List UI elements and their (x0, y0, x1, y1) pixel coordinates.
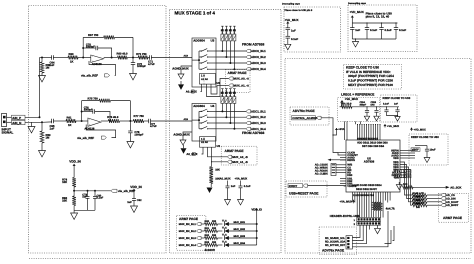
resistor R112 (412, 200, 427, 203)
wire (40, 57, 52, 59)
svg-text:A0_MUX: A0_MUX (186, 153, 197, 156)
wire bundle to IC top (357, 124, 359, 136)
wire cap bus bottom (352, 38, 396, 40)
svg-text:0.1uF: 0.1uF (385, 29, 392, 32)
wire J6 out 1 (352, 230, 360, 238)
svg-text:+3VA: +3VA (338, 128, 344, 131)
wire mux common (192, 59, 199, 61)
wire (287, 38, 289, 44)
ground (364, 116, 369, 121)
svg-text:R91: R91 (205, 227, 210, 230)
svg-text:R67 750: R67 750 (88, 34, 99, 37)
ground (41, 73, 43, 76)
ground (131, 206, 138, 212)
svg-text:4039383736353433: 4039383736353433 (357, 137, 379, 140)
svg-text:ADC0_BL4: ADC0_BL4 (251, 67, 266, 71)
wire (338, 152, 340, 154)
diode D6 (224, 229, 229, 233)
svg-text:SIGNAL: SIGNAL (2, 130, 14, 134)
resistor R78 (72, 178, 76, 188)
resistor network RN1 (331, 164, 336, 176)
resistor pack values (221, 30, 223, 32)
via mark (221, 25, 223, 27)
wire feedback right (129, 101, 131, 121)
node (111, 57, 113, 59)
wire (341, 103, 343, 107)
capacitor CB0 (351, 23, 353, 28)
wire decoder out B (207, 79, 229, 97)
svg-text:U4: U4 (211, 104, 215, 108)
wire (427, 197, 441, 199)
wire (382, 199, 384, 218)
wire mux out (216, 122, 246, 124)
resistor RP4 0 (373, 199, 375, 203)
resistor pack R1 (225, 97, 228, 104)
net label via_a/b_REF out (111, 189, 117, 192)
svg-text:ADC1_BL3: ADC1_BL3 (251, 121, 266, 125)
capacitor C78 (129, 121, 131, 131)
node (39, 116, 41, 118)
mux address decoder (200, 137, 216, 148)
wire (120, 120, 134, 122)
svg-text:TLA: TLA (222, 234, 227, 237)
resistor RP4 2 (377, 199, 379, 203)
svg-text:KEEP CLOSE TO U30: KEEP CLOSE TO U30 (411, 136, 439, 139)
ground (130, 74, 137, 80)
ADV76x page box bottom (319, 227, 357, 254)
svg-text:A1N: A1N (184, 55, 189, 58)
resistor R80 (72, 196, 76, 206)
wire (25, 58, 40, 118)
wire riser 4 (233, 41, 235, 69)
svg-text:MUX_A1_-B: MUX_A1_-B (232, 161, 247, 164)
ground (178, 74, 184, 79)
svg-text:ADC1_BL2: ADC1_BL2 (251, 115, 266, 119)
svg-text:AD7938: AD7938 (364, 160, 375, 164)
mux switch 4 (199, 128, 201, 130)
capacitor C70 (83, 47, 96, 49)
wire mux out (216, 68, 246, 70)
wire mux out (216, 50, 246, 52)
net label SPI2 (441, 200, 445, 203)
svg-text:R90: R90 (205, 220, 210, 223)
svg-text:0.1uF: 0.1uF (399, 29, 406, 32)
svg-text:pins 5, 13, 15, 40: pins 5, 13, 15, 40 (366, 15, 390, 19)
ferrite bead FB1 (12, 115, 26, 119)
wire diode bus (256, 212, 258, 246)
svg-text:MUX_A1_-A: MUX_A1_-A (234, 85, 249, 88)
wire mux out (216, 128, 246, 130)
svg-text:FROM AD7938: FROM AD7938 (242, 42, 264, 46)
net label ADC1_BL1 (246, 110, 251, 113)
svg-text:R61: R61 (67, 117, 72, 120)
IC U30 body (346, 140, 400, 192)
capacitor C256 (386, 106, 387, 107)
ground (71, 213, 78, 219)
resistor R90 (205, 223, 218, 226)
keep close box 3 (409, 134, 448, 165)
ground (238, 200, 244, 206)
svg-text:0.1uF: 0.1uF (383, 103, 390, 106)
ferrite bead FB2 (12, 120, 26, 124)
svg-text:A0_MUX: A0_MUX (220, 177, 231, 180)
wire output (104, 57, 118, 59)
wire cap bus top (351, 20, 353, 24)
wire (201, 223, 204, 225)
IC bottom pin stubs (352, 192, 354, 199)
IC top pin stubs (357, 137, 359, 141)
wire arrow (328, 159, 332, 161)
svg-text:DNI: DNI (416, 206, 420, 209)
capacitor C260 (426, 146, 428, 150)
svg-text:+VA_MUX: +VA_MUX (285, 18, 299, 22)
wire (7, 121, 12, 123)
wire feedback left (82, 37, 84, 57)
svg-text:3300pF: 3300pF (86, 46, 95, 49)
ground (28, 127, 35, 133)
mux address decoder (200, 74, 216, 85)
svg-text:1uF: 1uF (231, 185, 236, 188)
net label ICRNT (288, 184, 303, 188)
wire mux out (216, 62, 246, 64)
net label VREF (411, 148, 420, 152)
note box KEEP CLOSE TO U30 (344, 65, 402, 90)
ARM7 page box bottom (177, 216, 206, 251)
svg-text:ADG604: ADG604 (193, 104, 205, 108)
ground (127, 142, 134, 148)
wire (218, 230, 223, 232)
input connector J1 (2, 114, 7, 127)
wire noninverting input (86, 125, 115, 138)
svg-text:ARM7 PAGE: ARM7 PAGE (228, 71, 248, 75)
svg-text:R76 49.9: R76 49.9 (107, 116, 119, 119)
svg-text:1000pF: 1000pF (134, 134, 143, 137)
svg-text:1uF: 1uF (355, 29, 360, 32)
svg-text:VREF: VREF (412, 149, 419, 152)
svg-text:100: 100 (403, 183, 408, 186)
resistor R113 (412, 204, 427, 207)
capacitor CB2 (381, 22, 382, 23)
mux stage section boundary box (170, 9, 282, 253)
svg-text:1uF: 1uF (394, 103, 399, 106)
svg-text:10uF: 10uF (430, 149, 436, 152)
svg-text:MUX STAGE 1 of 4: MUX STAGE 1 of 4 (175, 11, 216, 16)
svg-text:MUX_EN_BL3: MUX_EN_BL3 (179, 237, 197, 240)
svg-text:AIN_N: AIN_N (12, 121, 21, 125)
capacitor C90 (227, 181, 229, 187)
svg-text:0.1uF: 0.1uF (97, 197, 104, 200)
svg-text:0.1uF: 0.1uF (244, 185, 251, 188)
resistor R93 (205, 244, 218, 247)
svg-text:MUX_EN1: MUX_EN1 (234, 221, 246, 224)
wire decoder2 out B (208, 147, 228, 157)
wire mux out (216, 110, 246, 112)
capacitor C85 (286, 27, 291, 29)
USB reset page box (286, 181, 327, 197)
wire (352, 106, 399, 108)
svg-text:1112131415161718: 1112131415161718 (353, 194, 374, 197)
decoupling caps box B (348, 5, 417, 52)
resistor R67 (104, 36, 115, 40)
node (82, 47, 84, 49)
power +VD_MUX mid (411, 128, 413, 131)
resistor R58 (40, 62, 44, 73)
wire (183, 132, 192, 140)
wire output (101, 120, 108, 122)
wire feedback top (82, 100, 99, 102)
net label MUX_A0_B (227, 155, 231, 158)
svg-text:R93: R93 (205, 241, 210, 244)
svg-text:MUX_A0_-A: MUX_A0_-A (234, 78, 249, 81)
svg-text:ARM7 PAGE: ARM7 PAGE (225, 149, 245, 153)
wire (201, 230, 204, 232)
svg-text:AGND_MUX: AGND_MUX (172, 66, 188, 70)
node (129, 120, 131, 122)
svg-text:ADV76x PAGE: ADV76x PAGE (322, 249, 345, 253)
resistor pack R3 (233, 34, 236, 41)
wire header stubs (359, 225, 361, 229)
ADV76x page box (290, 107, 329, 125)
wire (73, 168, 75, 178)
svg-text:10K: 10K (62, 181, 67, 184)
wire riser 3 (229, 41, 231, 63)
via mark (229, 88, 231, 90)
wire J6 out 4 (352, 211, 388, 247)
power +3VA (336, 128, 338, 131)
svg-text:U3: U3 (217, 145, 221, 148)
svg-text:330: 330 (212, 234, 217, 237)
resistor R60 (68, 56, 78, 60)
svg-text:ADG604: ADG604 (193, 38, 205, 42)
ground (374, 116, 379, 121)
svg-text:R60: R60 (69, 53, 74, 56)
ground AGND stage bottom (207, 188, 213, 194)
capacitor C65 (51, 119, 53, 123)
wire bundle right pins down (400, 162, 412, 195)
svg-text:R77 750: R77 750 (134, 115, 145, 118)
net label ADC1_BL2 (246, 116, 251, 119)
via mark (229, 25, 231, 27)
node (73, 190, 75, 192)
page bottom border (29, 258, 471, 260)
node (81, 120, 83, 122)
node (132, 57, 134, 59)
resistor pack R0 (221, 34, 224, 41)
wire (7, 116, 12, 118)
svg-text:ADC0_BL1: ADC0_BL1 (251, 49, 266, 53)
svg-text:via_a/b_REF: via_a/b_REF (81, 73, 98, 77)
svg-text:MUX_EN_BL2: MUX_EN_BL2 (179, 230, 197, 233)
capacitor C76 (82, 111, 93, 113)
wire (201, 244, 204, 246)
svg-text:USB+RESET PAGE: USB+RESET PAGE (289, 191, 319, 195)
via mark (221, 88, 223, 90)
mux switch 2 (199, 56, 201, 58)
capacitor CB3 (395, 22, 396, 23)
IC left pin stubs upper (340, 152, 346, 154)
svg-text:ADC0_BL2: ADC0_BL2 (251, 55, 266, 59)
svg-text:AIN_P: AIN_P (12, 116, 21, 120)
capacitor C77 (144, 120, 149, 122)
svg-text:0.1uF: 0.1uF (370, 29, 377, 32)
op-amp U29A (91, 55, 104, 63)
wire (127, 57, 138, 59)
wire (427, 201, 441, 203)
svg-text:MUX_A0_-B: MUX_A0_-B (232, 156, 247, 159)
resistor pack R0 (221, 97, 224, 104)
connector J6 (346, 236, 352, 249)
mux switch 1 (199, 50, 201, 52)
net label MUX_A0_A (229, 77, 233, 80)
wire (229, 244, 257, 246)
capacitor CB1 (366, 22, 367, 23)
resistor R76 (108, 119, 119, 123)
svg-text:R75 750: R75 750 (88, 97, 99, 100)
svg-text:A0_MUX: A0_MUX (186, 91, 197, 94)
svg-text:R92: R92 (205, 234, 210, 237)
wire riser 2 (225, 103, 227, 117)
resistor pack R3 (233, 97, 236, 104)
svg-text:10K: 10K (215, 169, 220, 172)
wire J6 out 3 (352, 230, 366, 244)
svg-text:DNI: DNI (371, 104, 375, 107)
svg-text:C82: C82 (137, 199, 142, 202)
svg-text:MUX_EN4: MUX_EN4 (234, 242, 246, 245)
wire (218, 223, 223, 225)
svg-text:TRA 30.9: TRA 30.9 (341, 103, 353, 106)
svg-text:MUX_EN_BL4: MUX_EN_BL4 (179, 244, 197, 247)
svg-text:NEXT (FOOTPRINT) FOR P100: NEXT (FOOTPRINT) FOR P100 (348, 83, 393, 87)
ground (225, 200, 231, 206)
svg-text:ADV76x PAGE: ADV76x PAGE (293, 109, 316, 113)
wire decoder2 out C (212, 147, 228, 162)
via mark (233, 88, 235, 90)
resistor pack R2 (229, 34, 232, 41)
svg-text:+VD_MUX: +VD_MUX (350, 10, 364, 14)
wire bottom bundle (352, 199, 354, 201)
wire (344, 185, 346, 187)
svg-text:AGND DGND DB15 DB14: AGND DGND DB15 DB14 (352, 184, 382, 187)
mux switch 4 (199, 68, 201, 70)
svg-text:1uF: 1uF (291, 30, 296, 33)
wire (76, 120, 88, 122)
ground (424, 158, 430, 163)
svg-text:FROM AD7938: FROM AD7938 (242, 131, 264, 135)
ground (396, 185, 402, 190)
ARM7 page box stage1 (226, 70, 251, 93)
mux switch 3 (199, 122, 201, 124)
wire (42, 121, 52, 122)
svg-text:4.7uF: 4.7uF (150, 125, 157, 128)
mux IC U3 (192, 38, 216, 87)
svg-text:ADC0_BL3: ADC0_BL3 (251, 61, 266, 65)
svg-text:330: 330 (212, 227, 217, 230)
resistor R77 (133, 119, 143, 123)
resistor RP4 3 (380, 199, 382, 203)
wire (344, 121, 346, 140)
ground (180, 140, 186, 145)
wire mux out (216, 56, 246, 58)
keep close box 2 (381, 95, 418, 122)
capacitor C64 (51, 55, 53, 59)
resistor R92 (205, 237, 218, 240)
capacitor C254 (366, 106, 367, 107)
net label ADC0_BL1 (246, 49, 251, 52)
wire mux out (216, 116, 246, 118)
wire (229, 230, 257, 232)
ground (395, 117, 400, 122)
svg-text:+VA_MUX: +VA_MUX (235, 177, 248, 180)
svg-text:REFIN: REFIN (347, 159, 355, 162)
wire (73, 187, 75, 196)
net label via_a/b_REF (101, 136, 106, 139)
wire to mux2 (151, 120, 193, 122)
svg-text:VIN0: VIN0 (393, 157, 399, 160)
svg-text:300pF: 300pF (360, 104, 367, 107)
wire (218, 244, 223, 246)
wire riser 1 (221, 103, 223, 111)
diode D7 (224, 236, 229, 240)
svg-text:MUX_EN_BL1: MUX_EN_BL1 (179, 223, 197, 226)
svg-text:DB7 DB6 DB5 DB4: DB7 DB6 DB5 DB4 (362, 145, 385, 148)
resistor pack values 2 (221, 92, 223, 94)
capacitor C72 (132, 58, 134, 63)
svg-text:3300pF: 3300pF (84, 109, 93, 112)
wire (321, 118, 338, 153)
header connector J5 row2 (357, 222, 381, 226)
power +VA_MUX mid (384, 124, 386, 127)
svg-text:0.1uF: 0.1uF (291, 38, 298, 41)
svg-text:4x4.7k: 4x4.7k (386, 207, 395, 211)
resistor R59 (40, 131, 44, 143)
svg-text:1uF: 1uF (127, 201, 132, 204)
wire noninverting input (89, 61, 116, 75)
capacitor C71 (148, 57, 150, 59)
wire (413, 186, 446, 188)
node (211, 161, 212, 162)
svg-text:1uF: 1uF (50, 64, 55, 67)
net label CONTROL_ADJ (292, 116, 316, 120)
wire (78, 57, 91, 59)
ground (41, 143, 43, 151)
node (81, 111, 83, 113)
resistor R105 (403, 186, 414, 189)
wire aux (385, 230, 392, 244)
decoupling caps box A (284, 7, 341, 52)
mux switch 3 (199, 62, 201, 64)
svg-text:TLA: TLA (222, 220, 227, 223)
svg-text:+VD_MUX: +VD_MUX (414, 129, 427, 132)
svg-text:MUX_EN3: MUX_EN3 (234, 235, 246, 238)
wire (287, 30, 289, 37)
mux switch 1 (199, 110, 201, 112)
resistor pack R1 (225, 34, 228, 41)
svg-text:ADC1_BL1: ADC1_BL1 (251, 109, 266, 113)
ARM7 page box stage2 (221, 146, 257, 165)
wire riser 2 (225, 41, 227, 57)
wire mux common (192, 119, 199, 121)
svg-text:U3: U3 (211, 38, 215, 42)
wire (308, 185, 346, 187)
wire (73, 206, 75, 214)
svg-text:HEADER-ECPRL-USB: HEADER-ECPRL-USB (330, 214, 360, 218)
svg-text:1K: 1K (68, 124, 72, 127)
wire (336, 164, 346, 166)
svg-text:AD_BUSY: AD_BUSY (446, 204, 459, 207)
wire J6 out 2 (352, 230, 363, 241)
svg-text:+VA_MUX: +VA_MUX (340, 201, 353, 204)
node (82, 57, 84, 59)
